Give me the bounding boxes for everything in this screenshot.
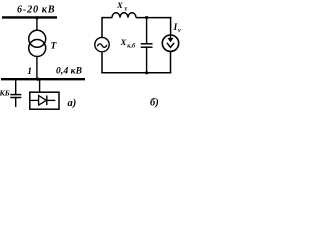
capacitor X_k,b [141, 43, 153, 45]
busbar 6-20 kV [2, 16, 57, 18]
svg-text:6-20 кВ: 6-20 кВ [17, 4, 55, 15]
wire busbar to transformer [36, 17, 38, 30]
current source I_v [162, 35, 178, 51]
junction bottom rail / capacitor branch [145, 71, 148, 74]
left vertical wire to AC source [101, 17, 103, 37]
inductor X_T coil [112, 13, 136, 18]
svg-text:v: v [178, 27, 181, 34]
svg-text:КБ: КБ [0, 88, 10, 97]
wire below capacitor KB [15, 98, 17, 108]
rectifier box [30, 92, 59, 109]
diode inside rectifier box [30, 99, 39, 101]
top rail right segment [136, 17, 171, 19]
svg-text:X: X [116, 0, 124, 10]
transformer T [29, 30, 46, 47]
svg-text:0,4 кВ: 0,4 кВ [56, 67, 82, 77]
svg-text:1: 1 [27, 67, 32, 77]
junction top rail / capacitor branch [145, 16, 148, 19]
wire capacitor to bottom rail [146, 47, 148, 72]
wire current source to bottom rail [170, 51, 172, 73]
bottom rail [101, 72, 171, 74]
svg-text:а): а) [68, 98, 77, 109]
wire transformer to 0,4 kV busbar [36, 56, 38, 79]
wire busbar to capacitor KB [15, 79, 17, 94]
svg-text:т: т [124, 6, 127, 13]
svg-text:б): б) [150, 98, 159, 109]
wire AC source to bottom rail [101, 53, 103, 74]
busbar 0,4 kV [1, 78, 85, 80]
svg-text:I: I [173, 22, 178, 32]
wire top rail to capacitor X_k,b [146, 18, 148, 44]
junction on busbar 6-20 kV [35, 16, 38, 19]
svg-text:к,б: к,б [127, 43, 136, 50]
wire busbar to rectifier box [39, 79, 41, 92]
wire top rail corner to current source [170, 17, 172, 35]
capacitor KB [10, 94, 21, 96]
AC source G [95, 37, 109, 51]
svg-text:X: X [120, 37, 128, 47]
junction on busbar 0,4 kV [36, 78, 39, 81]
top rail left segment [102, 17, 113, 19]
